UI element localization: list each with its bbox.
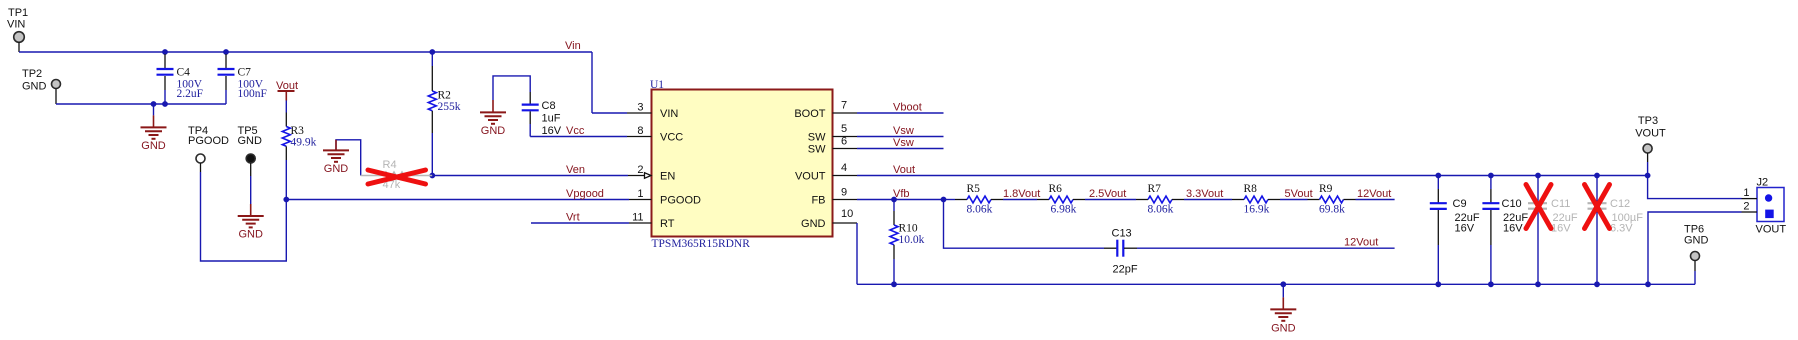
wire net Vsw lower <box>857 148 944 150</box>
wire net Ven to pin 2 <box>432 175 644 177</box>
wire rail to J2 pin 1 <box>1648 176 1742 199</box>
svg-text:Vrt: Vrt <box>566 212 580 224</box>
pin 10 GND <box>801 208 857 230</box>
ground GND bottom bus <box>1270 284 1296 334</box>
svg-text:6.98k: 6.98k <box>1051 204 1077 216</box>
svg-text:22pF: 22pF <box>1113 264 1138 276</box>
svg-text:69.8k: 69.8k <box>1319 204 1345 216</box>
svg-text:GND: GND <box>238 229 263 241</box>
capacitor C12 (not installed, ghosted) <box>1588 176 1644 285</box>
svg-text:U1: U1 <box>650 79 664 91</box>
svg-text:Vpgood: Vpgood <box>566 188 604 200</box>
wire net Vrt to pin 11 <box>531 222 652 224</box>
svg-text:VCC: VCC <box>660 132 683 144</box>
svg-text:R2: R2 <box>438 89 452 101</box>
node junction C4/top <box>162 49 168 55</box>
wire segment Vfb to R5 <box>944 199 956 201</box>
svg-text:R7: R7 <box>1148 183 1162 195</box>
svg-text:RT: RT <box>660 218 675 230</box>
svg-text:8.06k: 8.06k <box>967 204 993 216</box>
pin 6 SW <box>808 136 857 156</box>
wire net Vfb <box>857 199 944 201</box>
svg-text:Vboot: Vboot <box>893 102 922 114</box>
node junction C10/rail <box>1488 173 1494 179</box>
svg-text:8: 8 <box>637 125 643 137</box>
svg-text:R9: R9 <box>1319 183 1333 195</box>
resistor R3 <box>282 113 316 161</box>
svg-text:GND: GND <box>324 163 349 175</box>
node junction EN/R2/R4 <box>429 173 435 179</box>
svg-text:C9: C9 <box>1453 198 1467 210</box>
capacitor C7 <box>218 54 267 104</box>
svg-text:VOUT: VOUT <box>1635 128 1666 140</box>
test point TP5 <box>238 125 263 176</box>
svg-text:TP1: TP1 <box>8 7 28 19</box>
svg-text:C11: C11 <box>1551 198 1570 210</box>
svg-text:2: 2 <box>1743 201 1749 213</box>
svg-text:49.9k: 49.9k <box>291 137 317 149</box>
svg-text:PGOOD: PGOOD <box>188 135 229 147</box>
wire net Vsw upper <box>857 136 944 138</box>
svg-text:2.2uF: 2.2uF <box>177 88 204 100</box>
svg-text:12Vout: 12Vout <box>1344 237 1378 249</box>
svg-text:Ven: Ven <box>566 164 585 176</box>
node junction C11/rail <box>1535 173 1541 179</box>
wire ground bottom bus <box>857 283 1695 285</box>
node junction C7/top <box>223 49 229 55</box>
svg-text:1: 1 <box>1743 187 1749 199</box>
svg-text:11: 11 <box>632 212 643 224</box>
capacitor C9 <box>1430 176 1480 285</box>
svg-text:3: 3 <box>637 102 643 114</box>
wire VIN top rail <box>19 51 592 53</box>
svg-text:GND: GND <box>801 218 826 230</box>
wire pin 10 to ground bus <box>856 223 858 284</box>
svg-text:C7: C7 <box>238 67 252 79</box>
connector J2 <box>1742 177 1787 236</box>
svg-text:PGOOD: PGOOD <box>660 195 701 207</box>
svg-text:2.5Vout: 2.5Vout <box>1089 188 1126 200</box>
svg-text:4: 4 <box>841 162 847 174</box>
svg-text:7: 7 <box>841 100 847 112</box>
power port Vout <box>276 80 298 113</box>
svg-text:5Vout: 5Vout <box>1285 188 1313 200</box>
svg-text:12Vout: 12Vout <box>1357 188 1391 200</box>
svg-text:R4: R4 <box>383 159 397 171</box>
svg-text:VOUT: VOUT <box>1756 224 1787 236</box>
test point TP2 <box>22 68 61 104</box>
node junction C9/ground bus <box>1435 281 1441 287</box>
node junction Vfb/R10 <box>891 197 897 203</box>
resistor R9 <box>1308 183 1356 216</box>
svg-text:TP2: TP2 <box>22 68 42 80</box>
node junction R2/top <box>429 49 435 55</box>
wire J2 pin 2 to ground bus <box>1648 212 1742 284</box>
capacitor C11 (not installed, ghosted) <box>1528 176 1578 285</box>
wire C13 branch <box>944 200 1105 249</box>
node junction R10/ground bus <box>891 281 897 287</box>
svg-text:Vin: Vin <box>565 40 581 52</box>
svg-text:VIN: VIN <box>7 19 25 31</box>
svg-text:J2: J2 <box>1757 177 1769 189</box>
svg-text:8.06k: 8.06k <box>1148 204 1174 216</box>
wire net Vpgood to pin 1 <box>286 199 651 201</box>
svg-text:C12: C12 <box>1610 198 1630 210</box>
svg-text:Vout: Vout <box>893 164 915 176</box>
pin 7 BOOT <box>794 100 857 120</box>
node junction GND stub/bus <box>151 101 157 107</box>
svg-text:EN: EN <box>660 171 675 183</box>
svg-text:GND: GND <box>1684 235 1709 247</box>
red X over R4 <box>368 170 426 184</box>
svg-text:1.8Vout: 1.8Vout <box>1003 188 1040 200</box>
svg-text:2: 2 <box>637 164 643 176</box>
resistor R6 <box>1037 183 1085 216</box>
svg-text:SW: SW <box>808 132 826 144</box>
svg-text:9: 9 <box>841 187 847 199</box>
svg-text:6: 6 <box>841 136 847 148</box>
wire net 5Vout <box>1280 199 1308 201</box>
wire net 2.5Vout <box>1085 199 1136 201</box>
capacitor C8 <box>522 92 562 137</box>
node junction C4/bus <box>162 101 168 107</box>
pin 4 VOUT <box>795 162 857 183</box>
svg-text:R8: R8 <box>1244 183 1258 195</box>
wire R4 ground branch <box>336 140 361 176</box>
resistor R8 <box>1232 183 1280 216</box>
svg-text:C10: C10 <box>1502 198 1522 210</box>
svg-text:100nF: 100nF <box>238 88 267 100</box>
op-amp U1 TPSM365R15RDNR body <box>650 79 833 250</box>
svg-text:16V: 16V <box>542 125 562 137</box>
wire TP5 to ground <box>250 176 252 204</box>
test point TP3 <box>1635 115 1666 176</box>
node junction C10/ground bus <box>1488 281 1494 287</box>
pin 9 FB <box>811 187 857 207</box>
node junction C12/rail <box>1594 173 1600 179</box>
svg-text:Vcc: Vcc <box>566 125 585 137</box>
svg-text:TPSM365R15RDNR: TPSM365R15RDNR <box>652 238 751 250</box>
svg-text:255k: 255k <box>438 101 461 113</box>
red X over C12 <box>1585 185 1610 229</box>
wire net Vcc to pin 8 <box>530 136 651 138</box>
test point TP4 <box>188 125 229 172</box>
capacitor C10 <box>1482 176 1528 285</box>
wire net Vout rail <box>857 175 1648 177</box>
pin 3 VIN <box>637 102 678 121</box>
svg-text:C13: C13 <box>1112 228 1132 240</box>
wire net 12Vout feedback row <box>1356 199 1395 201</box>
svg-text:C4: C4 <box>177 67 191 79</box>
svg-text:10.0k: 10.0k <box>899 234 925 246</box>
svg-text:Vsw: Vsw <box>893 137 914 149</box>
svg-text:BOOT: BOOT <box>794 108 825 120</box>
wire net 12Vout C13 row <box>1137 247 1395 249</box>
node junction PGOOD <box>283 197 289 203</box>
svg-text:6.3V: 6.3V <box>1610 223 1633 235</box>
wire TP2 ground bus <box>56 103 226 105</box>
svg-text:VOUT: VOUT <box>795 171 826 183</box>
wire C8 to ground <box>493 76 530 100</box>
capacitor C13 <box>1104 228 1138 276</box>
resistor R10 <box>890 200 925 285</box>
resistor R2 <box>428 52 460 176</box>
svg-text:R10: R10 <box>899 223 918 235</box>
wire R3 to PGOOD node <box>285 160 287 200</box>
svg-text:GND: GND <box>141 140 166 152</box>
node junction TP3/rail <box>1645 173 1651 179</box>
svg-text:R5: R5 <box>967 183 981 195</box>
svg-text:5: 5 <box>841 123 847 135</box>
ground GND under TP5 <box>238 204 264 241</box>
node junction Vfb/C13 branch <box>941 197 947 203</box>
svg-text:1uF: 1uF <box>542 113 561 125</box>
svg-text:FB: FB <box>811 195 825 207</box>
test point TP1 <box>7 7 28 52</box>
svg-text:10: 10 <box>841 208 853 220</box>
red X over C11 <box>1526 185 1551 229</box>
pin 1 PGOOD <box>637 188 701 207</box>
resistor R5 <box>955 183 1003 216</box>
wire TP4 to PGOOD node <box>201 172 287 261</box>
node junction J2 pin2/ground bus <box>1645 281 1651 287</box>
pin 8 VCC <box>637 125 683 144</box>
pin 5 SW <box>808 123 857 144</box>
wire net 3.3Vout <box>1184 199 1232 201</box>
svg-text:GND: GND <box>238 135 263 147</box>
svg-text:VIN: VIN <box>660 108 678 120</box>
wire net Vboot <box>857 112 944 114</box>
svg-text:R3: R3 <box>291 125 305 137</box>
svg-text:C8: C8 <box>542 100 556 112</box>
svg-text:TP3: TP3 <box>1638 115 1658 127</box>
ground GND at C8 <box>480 100 506 137</box>
svg-text:1: 1 <box>637 188 643 200</box>
node junction C12/ground bus <box>1594 281 1600 287</box>
svg-text:16V: 16V <box>1455 223 1475 235</box>
ground GND input bus <box>141 104 167 152</box>
svg-text:3.3Vout: 3.3Vout <box>1186 188 1223 200</box>
wire net 1.8Vout <box>1003 199 1037 201</box>
svg-text:R6: R6 <box>1049 183 1063 195</box>
ground GND at R4 <box>323 140 349 175</box>
wire net Vin to pin 3 <box>592 52 652 113</box>
capacitor C4 <box>157 54 204 104</box>
svg-text:GND: GND <box>1271 322 1296 334</box>
svg-text:16V: 16V <box>1551 223 1571 235</box>
pin 11 RT <box>632 212 675 231</box>
node junction C9/rail <box>1435 173 1441 179</box>
svg-text:GND: GND <box>22 81 47 93</box>
svg-text:SW: SW <box>808 144 826 156</box>
node junction ground symbol/bus <box>1280 281 1286 287</box>
svg-text:16.9k: 16.9k <box>1244 204 1270 216</box>
pin 2 EN with input arrow <box>637 164 675 183</box>
resistor R7 <box>1136 183 1184 216</box>
svg-text:GND: GND <box>481 125 506 137</box>
svg-text:Vsw: Vsw <box>893 125 914 137</box>
test point TP6 <box>1684 224 1709 285</box>
svg-text:16V: 16V <box>1503 223 1523 235</box>
node junction C11/ground bus <box>1535 281 1541 287</box>
resistor R4 (not installed, ghosted) <box>361 159 433 191</box>
